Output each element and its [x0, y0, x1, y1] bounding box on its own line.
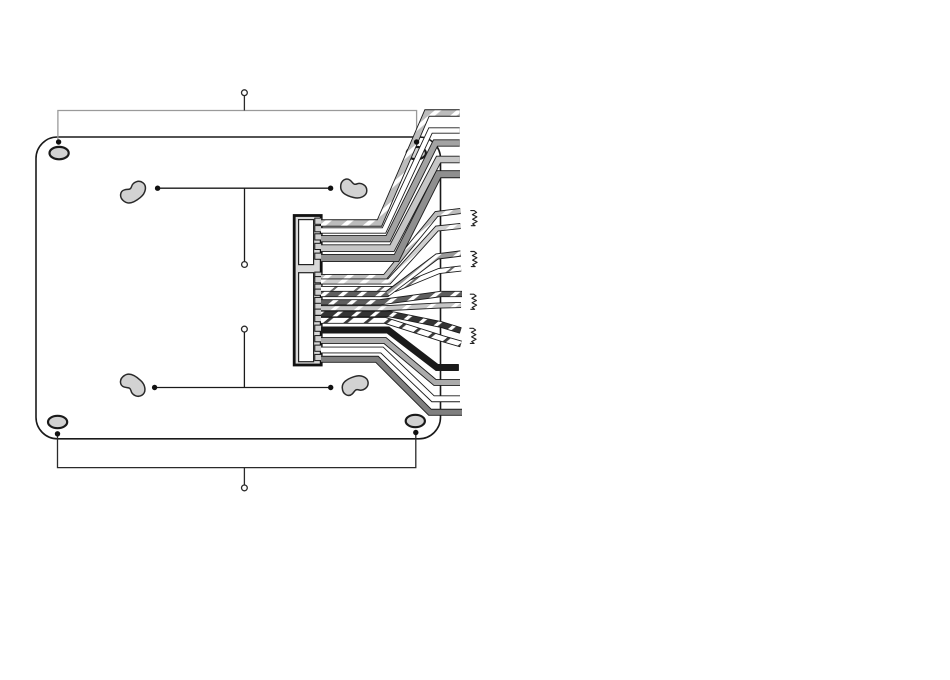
- pad blob top-right: [338, 178, 368, 201]
- pin 5: [315, 253, 322, 259]
- pin 16: [315, 345, 322, 351]
- pin 10: [315, 297, 322, 303]
- node dot top-right of line: [328, 186, 333, 191]
- wire L4 (dark/gray hatched): [321, 254, 461, 295]
- node dot bottom-left of line: [152, 385, 157, 390]
- pin 13: [315, 316, 322, 322]
- wire U1 (light hatched): [321, 113, 460, 223]
- connector J1 upper cavity: [299, 220, 314, 265]
- connector J1 lower cavity: [299, 273, 314, 362]
- pin 6: [315, 272, 322, 278]
- wire L5 (dark hatched): [321, 294, 462, 302]
- pin 7: [315, 277, 322, 283]
- bottom callout bracket: [58, 434, 416, 468]
- inner top circle: [242, 262, 248, 268]
- connector J1 housing: [294, 216, 321, 366]
- top callout circle: [242, 90, 248, 96]
- harness squiggle 4: [470, 328, 476, 343]
- wire U3 (mid gray): [321, 143, 460, 239]
- harness squiggle 3: [470, 294, 476, 309]
- pin 9: [315, 289, 322, 295]
- pad blob bottom-left: [118, 370, 149, 399]
- pin 15: [315, 336, 322, 342]
- pad blob bottom-right: [339, 372, 370, 397]
- wire L3 (white dashed): [321, 269, 461, 290]
- wire L9 (black): [321, 330, 459, 368]
- wire U5 (dark gray): [321, 174, 460, 258]
- mounting hole oval bottom-left: [48, 416, 67, 428]
- corner dot top-left: [56, 139, 61, 144]
- wire L12 (dark gray): [321, 359, 462, 412]
- inner bottom dimension line: [242, 326, 248, 332]
- corner dot bottom-left: [55, 431, 60, 436]
- pin 2: [315, 226, 322, 232]
- wire L10 (gray): [321, 341, 460, 383]
- module body outline: [36, 137, 441, 439]
- pin 8: [315, 284, 322, 290]
- wire L2 (pale gray): [321, 226, 461, 282]
- top callout stem: [243, 96, 245, 111]
- pad blob top-left: [118, 178, 149, 206]
- pin 1: [315, 218, 322, 224]
- node dot bottom-right of line: [328, 385, 333, 390]
- wire L6 (light hatched): [321, 305, 461, 308]
- mounting hole oval bottom-right: [406, 415, 425, 427]
- harness squiggle 1: [471, 211, 477, 226]
- wire L11 (white): [321, 350, 460, 399]
- pin 17: [315, 354, 322, 360]
- mounting hole oval top-right: [407, 147, 426, 159]
- bottom callout circle: [242, 485, 248, 491]
- bottom callout stem: [243, 468, 245, 485]
- pin 4: [315, 243, 322, 249]
- harness squiggle 2: [471, 252, 477, 267]
- top callout bracket (gray): [58, 111, 417, 143]
- mounting hole oval top-left: [50, 147, 69, 159]
- corner dot top-right: [414, 139, 419, 144]
- corner dot bottom-right: [413, 430, 418, 435]
- pin 12: [315, 309, 322, 315]
- pin 3: [315, 234, 322, 240]
- wire L1 (light hatched): [321, 211, 461, 277]
- wire L8 (white hatched): [321, 320, 461, 344]
- inner top dimension line: [158, 187, 331, 189]
- wire L7 (black hatched): [321, 314, 461, 331]
- wire U4 (light gray): [321, 160, 460, 249]
- node dot top-left of line: [155, 186, 160, 191]
- pin 14: [315, 325, 322, 331]
- wire U2 (white): [321, 131, 460, 231]
- pin 11: [315, 303, 322, 309]
